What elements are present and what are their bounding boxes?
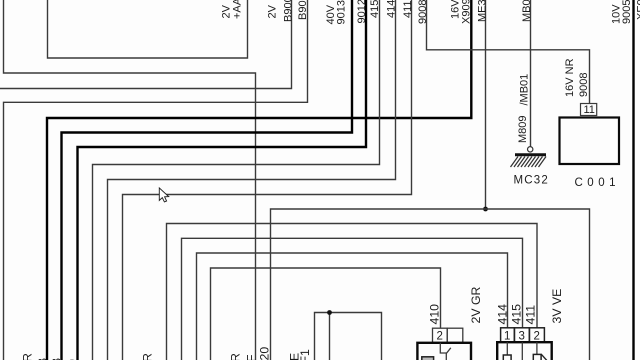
connector blank cell bbox=[447, 328, 463, 342]
wire 02 : from top x3.4 down, right, down to bottom bbox=[4, 0, 256, 360]
component box left bottom bbox=[417, 343, 471, 360]
svg-text:9008: 9008 bbox=[578, 73, 590, 97]
wire 2V B900 bbox=[0, 0, 292, 89]
svg-text:R: R bbox=[229, 353, 243, 360]
component box right bottom bbox=[497, 342, 552, 360]
ring1 wire (ME30 net) bbox=[271, 209, 590, 360]
svg-text:410: 410 bbox=[428, 304, 442, 325]
svg-text:9005: 9005 bbox=[621, 0, 633, 24]
wire 10V 9005 thick bbox=[632, 0, 634, 360]
svg-text:2V: 2V bbox=[267, 4, 279, 18]
pin box 1 bbox=[503, 355, 511, 360]
pin diagonal mark bbox=[541, 354, 547, 360]
svg-text:9012: 9012 bbox=[356, 0, 368, 24]
connector cell 2 (410) bbox=[433, 328, 448, 342]
svg-text:2: 2 bbox=[534, 331, 540, 343]
svg-text:B900: B900 bbox=[283, 0, 295, 22]
svg-text:C001: C001 bbox=[575, 177, 621, 189]
svg-text:ME30: ME30 bbox=[477, 0, 489, 22]
svg-text:411: 411 bbox=[402, 0, 414, 18]
svg-text:X909: X909 bbox=[461, 0, 473, 24]
wire 415 bbox=[93, 0, 380, 360]
connector 11 of C001 bbox=[581, 104, 597, 116]
ring4 wire to pin1 (414) bbox=[197, 253, 508, 360]
svg-text:3: 3 bbox=[519, 331, 525, 343]
wire ME30 bbox=[485, 0, 487, 209]
wire 414 bbox=[108, 0, 396, 360]
pin block gray bbox=[422, 357, 434, 360]
junction bottom loop bbox=[327, 310, 332, 315]
wire 16V X909 thick bbox=[47, 0, 471, 360]
svg-text:3V VE: 3V VE bbox=[550, 289, 564, 324]
svg-text:M809: M809 bbox=[517, 115, 529, 143]
svg-text:MB01: MB01 bbox=[521, 0, 533, 22]
svg-text:20: 20 bbox=[258, 347, 272, 360]
wire 411 bbox=[123, 0, 412, 360]
ring3 wire to pin3 (415) bbox=[182, 238, 523, 360]
pin wire 3 inside right box bbox=[521, 342, 523, 360]
junction ME30/ring1 bbox=[483, 207, 488, 212]
svg-text:MC32: MC32 bbox=[514, 175, 549, 187]
wire 40V 9013 thick bbox=[62, 0, 353, 360]
svg-text:415: 415 bbox=[369, 0, 381, 18]
svg-text:B900: B900 bbox=[297, 0, 309, 20]
component C001 box bbox=[560, 118, 620, 165]
svg-text:11: 11 bbox=[584, 104, 595, 116]
wire B900 second bbox=[4, 0, 308, 360]
ground hatching bbox=[511, 157, 547, 168]
mouse cursor bbox=[159, 188, 168, 202]
svg-text:415: 415 bbox=[510, 304, 524, 325]
connector cells 1 3 2 bbox=[501, 328, 515, 342]
svg-text:9008: 9008 bbox=[417, 0, 429, 24]
svg-text:R: R bbox=[21, 353, 35, 360]
ground bar bbox=[515, 153, 546, 156]
pin wire 1 inside right box bbox=[506, 342, 508, 355]
svg-text:R: R bbox=[141, 353, 155, 360]
pin box 2 bbox=[533, 354, 541, 360]
svg-text:414: 414 bbox=[386, 0, 398, 18]
svg-text:414: 414 bbox=[496, 304, 510, 325]
svg-text:2: 2 bbox=[437, 331, 443, 343]
ground M809 circle bbox=[528, 147, 533, 152]
pin wire 2 inside right box bbox=[536, 342, 538, 354]
svg-text:1: 1 bbox=[504, 331, 510, 343]
ring2 wire to pin2 (411) bbox=[167, 224, 538, 360]
ring5 wire to pin 410 bbox=[211, 268, 441, 360]
svg-text:F1: F1 bbox=[298, 349, 312, 360]
wire MB01 to ground bbox=[530, 0, 532, 147]
svg-text:9013: 9013 bbox=[336, 0, 348, 24]
svg-text:2V GR: 2V GR bbox=[469, 286, 483, 323]
pin wire inside left box bbox=[440, 343, 446, 360]
svg-text:XE0: XE0 bbox=[636, 0, 640, 20]
wire 9012 thick bbox=[78, 0, 367, 360]
svg-text:+AA: +AA bbox=[232, 0, 244, 19]
svg-text:F: F bbox=[245, 354, 259, 360]
bottom loop wire bbox=[315, 313, 382, 360]
pin tick diagonal bbox=[446, 348, 451, 354]
wire 9008 to C001 bbox=[427, 0, 590, 104]
wire 2V +AA : top left leg bbox=[48, 0, 248, 58]
svg-text:16V NR: 16V NR bbox=[564, 58, 576, 97]
bottom loop middle branch bbox=[329, 313, 331, 360]
svg-text:411: 411 bbox=[524, 305, 538, 325]
svg-text:/MB01: /MB01 bbox=[519, 74, 531, 106]
